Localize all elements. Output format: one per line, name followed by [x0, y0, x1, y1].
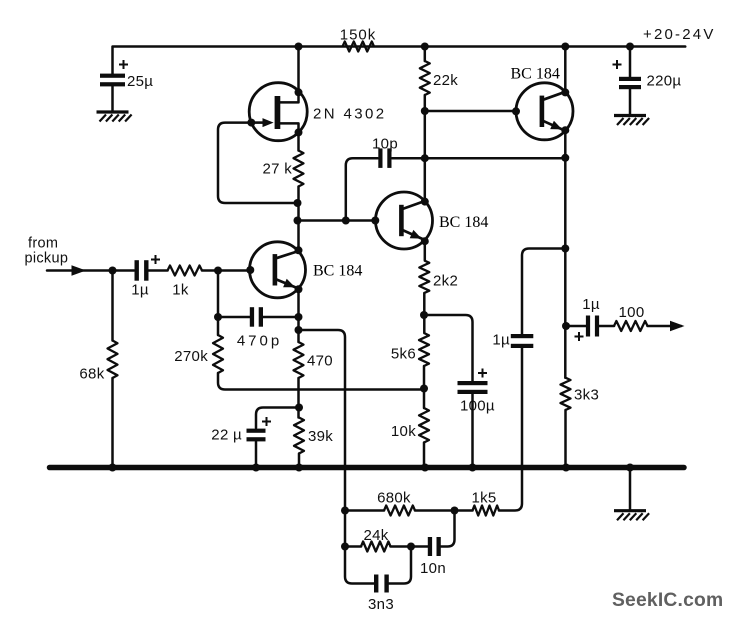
svg-text:BC 184: BC 184	[511, 66, 560, 83]
resistor R 100	[614, 304, 648, 331]
junction: 39k / ground rail	[295, 464, 303, 472]
wire: Q4 emitter column	[564, 130, 567, 378]
svg-text:22 µ: 22 µ	[211, 427, 242, 444]
wire: Q2 emitter down	[297, 289, 300, 342]
resistor R 5k6	[391, 333, 429, 366]
wire: Q1 gate feedback loop	[218, 123, 298, 203]
transistor Q4 BC184	[511, 66, 574, 140]
junction: base bias node	[214, 267, 222, 275]
svg-text:3n3: 3n3	[368, 596, 394, 613]
svg-text:1µ: 1µ	[131, 282, 149, 299]
resistor R 1k	[168, 266, 203, 299]
resistor R 1k5	[471, 490, 499, 516]
wire: base node down to 470p/270k	[217, 271, 220, 336]
svg-text:270k: 270k	[174, 348, 208, 365]
junction: 10p branch on base line	[342, 217, 350, 225]
junction: Q1 drain on circle	[295, 88, 303, 96]
wire: rail to C 25u	[111, 47, 114, 75]
svg-text:10k: 10k	[391, 423, 416, 440]
junction: output node	[562, 322, 570, 330]
resistor R 24k	[361, 527, 391, 552]
junction: 470p left	[214, 313, 222, 321]
svg-text:100: 100	[619, 304, 645, 321]
wire: ground rail	[50, 465, 685, 471]
resistor R 39k	[294, 418, 333, 454]
junction: 100u / ground rail	[469, 464, 477, 472]
resistor R 10k	[391, 408, 429, 443]
junction: rail / Q4 collector	[561, 43, 569, 51]
capacitor C 25u	[100, 73, 153, 90]
junction: gate loop / 27k bottom	[294, 199, 302, 207]
wire: 3k3 to ground rail	[564, 410, 567, 468]
resistor R 3k3	[561, 378, 600, 410]
junction: 3k3 / ground rail	[562, 464, 570, 472]
svg-text:22k: 22k	[433, 72, 458, 89]
wire: 5k6 to 10k	[423, 366, 426, 408]
resistor R 470	[294, 342, 333, 378]
wire: 10k to ground rail	[423, 443, 426, 468]
wire: Q2 base line up to C 10p	[346, 158, 378, 220]
transistor Q1 2N4302 (JFET)	[249, 83, 386, 141]
ground	[97, 112, 132, 122]
wire: node to Q3 base	[298, 219, 376, 222]
capacitor C 1u out	[582, 296, 600, 337]
svg-text:680k: 680k	[377, 490, 411, 507]
wire: emitter to C 1u mid	[522, 249, 565, 335]
svg-text:24k: 24k	[363, 527, 388, 544]
junction: Q2 base on circle	[246, 266, 254, 274]
junction: 680k left	[341, 507, 349, 515]
svg-text:150k: 150k	[340, 27, 377, 44]
svg-text:1µ: 1µ	[582, 296, 600, 313]
junction: ground symbol / rail	[626, 464, 634, 472]
junction: 680k/1k5/10n	[451, 507, 459, 515]
junction: Q1 gate on circle	[247, 119, 255, 127]
wire: 680k to node	[415, 509, 455, 512]
svg-text:470p: 470p	[237, 333, 282, 350]
wire: 470p right lead	[263, 316, 299, 319]
wire: R 100 to output	[648, 325, 682, 328]
wire: input node to R 68k	[111, 271, 114, 341]
svg-text:1k5: 1k5	[471, 490, 496, 507]
wire: R 1k to Q2 base	[202, 269, 250, 272]
svg-text:220µ: 220µ	[647, 73, 682, 90]
wire: rail to Q4 collector	[564, 47, 567, 93]
polarity + mark	[613, 60, 622, 69]
junction: Q4 emitter on circle	[561, 126, 569, 134]
wire: to 680k	[345, 509, 384, 512]
junction: 22u tap	[295, 404, 303, 412]
junction: Q3 collector on circle	[421, 198, 429, 206]
wire: 39k to ground rail	[298, 454, 301, 468]
capacitor C 220u	[619, 73, 681, 90]
wire: 22k to Q3 collector	[424, 95, 427, 202]
svg-text:pickup: pickup	[25, 251, 69, 267]
junction: 24k/10n/3n3	[407, 543, 415, 551]
junction: 470p right	[295, 313, 303, 321]
wire: ground rail to ground symbol	[629, 468, 632, 510]
wire: C 220u to ground	[629, 90, 632, 115]
wire: +20-24V supply rail	[114, 45, 686, 48]
junction: 100u tap	[420, 311, 428, 319]
junction: collector node / Q3 base line	[294, 217, 302, 225]
polarity + mark	[262, 417, 271, 426]
svg-text:5k6: 5k6	[391, 346, 416, 363]
wire: C 1u mid down to R 1k5	[499, 348, 522, 511]
wire: 2k2 to 5k6	[423, 293, 426, 333]
svg-text:BC 184: BC 184	[313, 263, 362, 280]
junction: Q2 emitter on circle	[295, 285, 303, 293]
junction: input / R 68k	[109, 267, 117, 275]
wire: 3n3 to 24k right node	[389, 547, 411, 584]
wire: C 1u to R 1k	[149, 269, 168, 272]
junction: 10k / ground rail	[421, 464, 429, 472]
junction: 22u / ground rail	[252, 464, 260, 472]
svg-text:+20-24V: +20-24V	[643, 26, 716, 43]
wire: tap to C 22u	[256, 408, 299, 429]
svg-text:2N 4302: 2N 4302	[313, 106, 387, 123]
wire: C 25u to ground	[111, 87, 114, 112]
capacitor C 10n	[420, 537, 446, 577]
junction: 10p line / collector line	[421, 154, 429, 162]
svg-text:68k: 68k	[79, 366, 104, 383]
wire: 470 to 39k	[297, 378, 300, 418]
capacitor C 22u	[211, 427, 265, 444]
junction: emitter / C 1u mid	[561, 245, 569, 253]
svg-text:25µ: 25µ	[127, 73, 153, 90]
wire: 270k bottom to 5k6/10k node	[218, 373, 424, 390]
wire: R 68k to ground rail	[111, 378, 114, 468]
wire: R 27k to Q2 collector	[297, 187, 300, 251]
resistor R 27k	[262, 151, 303, 187]
svg-text:10p: 10p	[372, 136, 398, 153]
wire: to 24k	[345, 545, 361, 548]
transistor Q2 BC184	[250, 242, 363, 298]
wire: Q3 emitter to 2k2	[424, 241, 427, 260]
wire: node to 10n	[411, 545, 428, 548]
junction: feedback takeoff	[295, 326, 303, 334]
wire: 24k to node	[391, 545, 412, 548]
svg-text:2k2: 2k2	[433, 273, 458, 290]
resistor R 270k	[174, 335, 223, 373]
svg-text:1k: 1k	[172, 282, 189, 299]
svg-text:3k3: 3k3	[574, 387, 599, 404]
junction: emitter / 10p line	[561, 154, 569, 162]
junction: 22k / Q4 base line	[421, 107, 429, 115]
svg-text:1µ: 1µ	[492, 332, 510, 349]
svg-text:470: 470	[307, 353, 333, 370]
capacitor C 10p	[372, 136, 398, 168]
svg-text:SeekIC.com: SeekIC.com	[612, 590, 723, 611]
resistor R 150k	[340, 27, 377, 52]
capacitor C 1u mid	[492, 332, 533, 349]
wire: C 22u to ground rail	[255, 442, 258, 468]
resistor R 680k	[377, 490, 415, 516]
wire: rail to Q1 drain	[280, 47, 298, 103]
junction: 24k left	[341, 543, 349, 551]
capacitor C 100u	[458, 381, 495, 415]
capacitor C 470p	[237, 307, 282, 349]
wire: 470p left lead	[218, 316, 250, 319]
junction: rail / 22k	[421, 43, 429, 51]
polarity + mark	[575, 332, 584, 341]
resistor R 2k2	[419, 261, 458, 294]
wire: C 100u to ground rail	[471, 394, 474, 468]
output signal arrow	[670, 321, 685, 332]
wire: rail to C 220u	[629, 47, 632, 78]
polarity + mark	[151, 255, 160, 264]
wire: Q4 base line	[425, 110, 516, 113]
wire: C 10p to Q3 collector line / Q4 emitter	[392, 157, 566, 160]
wire: rail to R 22k	[424, 47, 427, 62]
polarity + mark	[478, 369, 487, 378]
ground	[614, 116, 649, 126]
svg-text:from: from	[28, 236, 58, 252]
input signal arrow	[72, 265, 87, 276]
svg-text:39k: 39k	[308, 428, 333, 445]
wire: input lead	[47, 269, 134, 272]
junction: Q3 base on circle	[371, 217, 379, 225]
capacitor C 1u input	[131, 260, 149, 298]
wire: 10n up to 680k/1k5 node	[441, 511, 455, 547]
junction: rail / 220u	[626, 43, 634, 51]
wire: Q1 source to R 27k	[280, 123, 298, 150]
junction: Q3 emitter on circle	[421, 237, 429, 245]
junction: rail / Q1 drain	[295, 43, 303, 51]
resistor R 22k	[420, 61, 458, 95]
svg-text:10n: 10n	[420, 560, 446, 577]
svg-text:27 k: 27 k	[262, 161, 292, 178]
transistor Q3 BC184	[376, 192, 489, 249]
junction: 5k6/10k / feedback line	[420, 385, 428, 393]
wire: tap to C 100u	[424, 315, 473, 381]
resistor R 68k	[79, 341, 117, 383]
junction: Q4 collector on circle	[561, 88, 569, 96]
polarity + mark	[119, 60, 128, 69]
capacitor C 3n3	[368, 575, 394, 614]
junction: Q2 collector on circle	[295, 246, 303, 254]
wire: node to 1k5	[455, 509, 473, 512]
junction: Q4 base on circle	[512, 107, 520, 115]
svg-text:BC 184: BC 184	[439, 214, 488, 231]
svg-text:100µ: 100µ	[460, 398, 495, 415]
ground	[614, 511, 649, 521]
junction: Q1 source on circle	[295, 128, 303, 136]
junction: 68k / ground rail	[109, 464, 117, 472]
wire: C 1u out to R 100	[599, 325, 614, 328]
wire: output node to C 1u out	[566, 325, 586, 328]
wire: feedback node down to 3n3/24k network	[299, 330, 375, 584]
